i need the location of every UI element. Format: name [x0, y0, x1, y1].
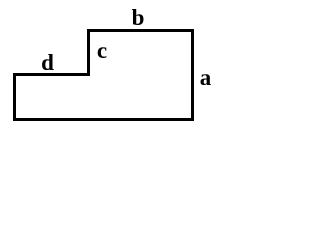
side a (right edge): [191, 29, 194, 121]
svg-text:c: c: [97, 38, 107, 63]
svg-text:d: d: [41, 50, 54, 75]
side b (top edge of upper rectangle): [87, 29, 194, 32]
bottom edge: [13, 118, 194, 121]
svg-text:b: b: [132, 5, 145, 30]
side c (step vertical edge): [87, 29, 90, 76]
side d (upper-left horizontal edge): [13, 73, 90, 76]
svg-text:a: a: [200, 65, 212, 90]
left edge: [13, 73, 16, 121]
